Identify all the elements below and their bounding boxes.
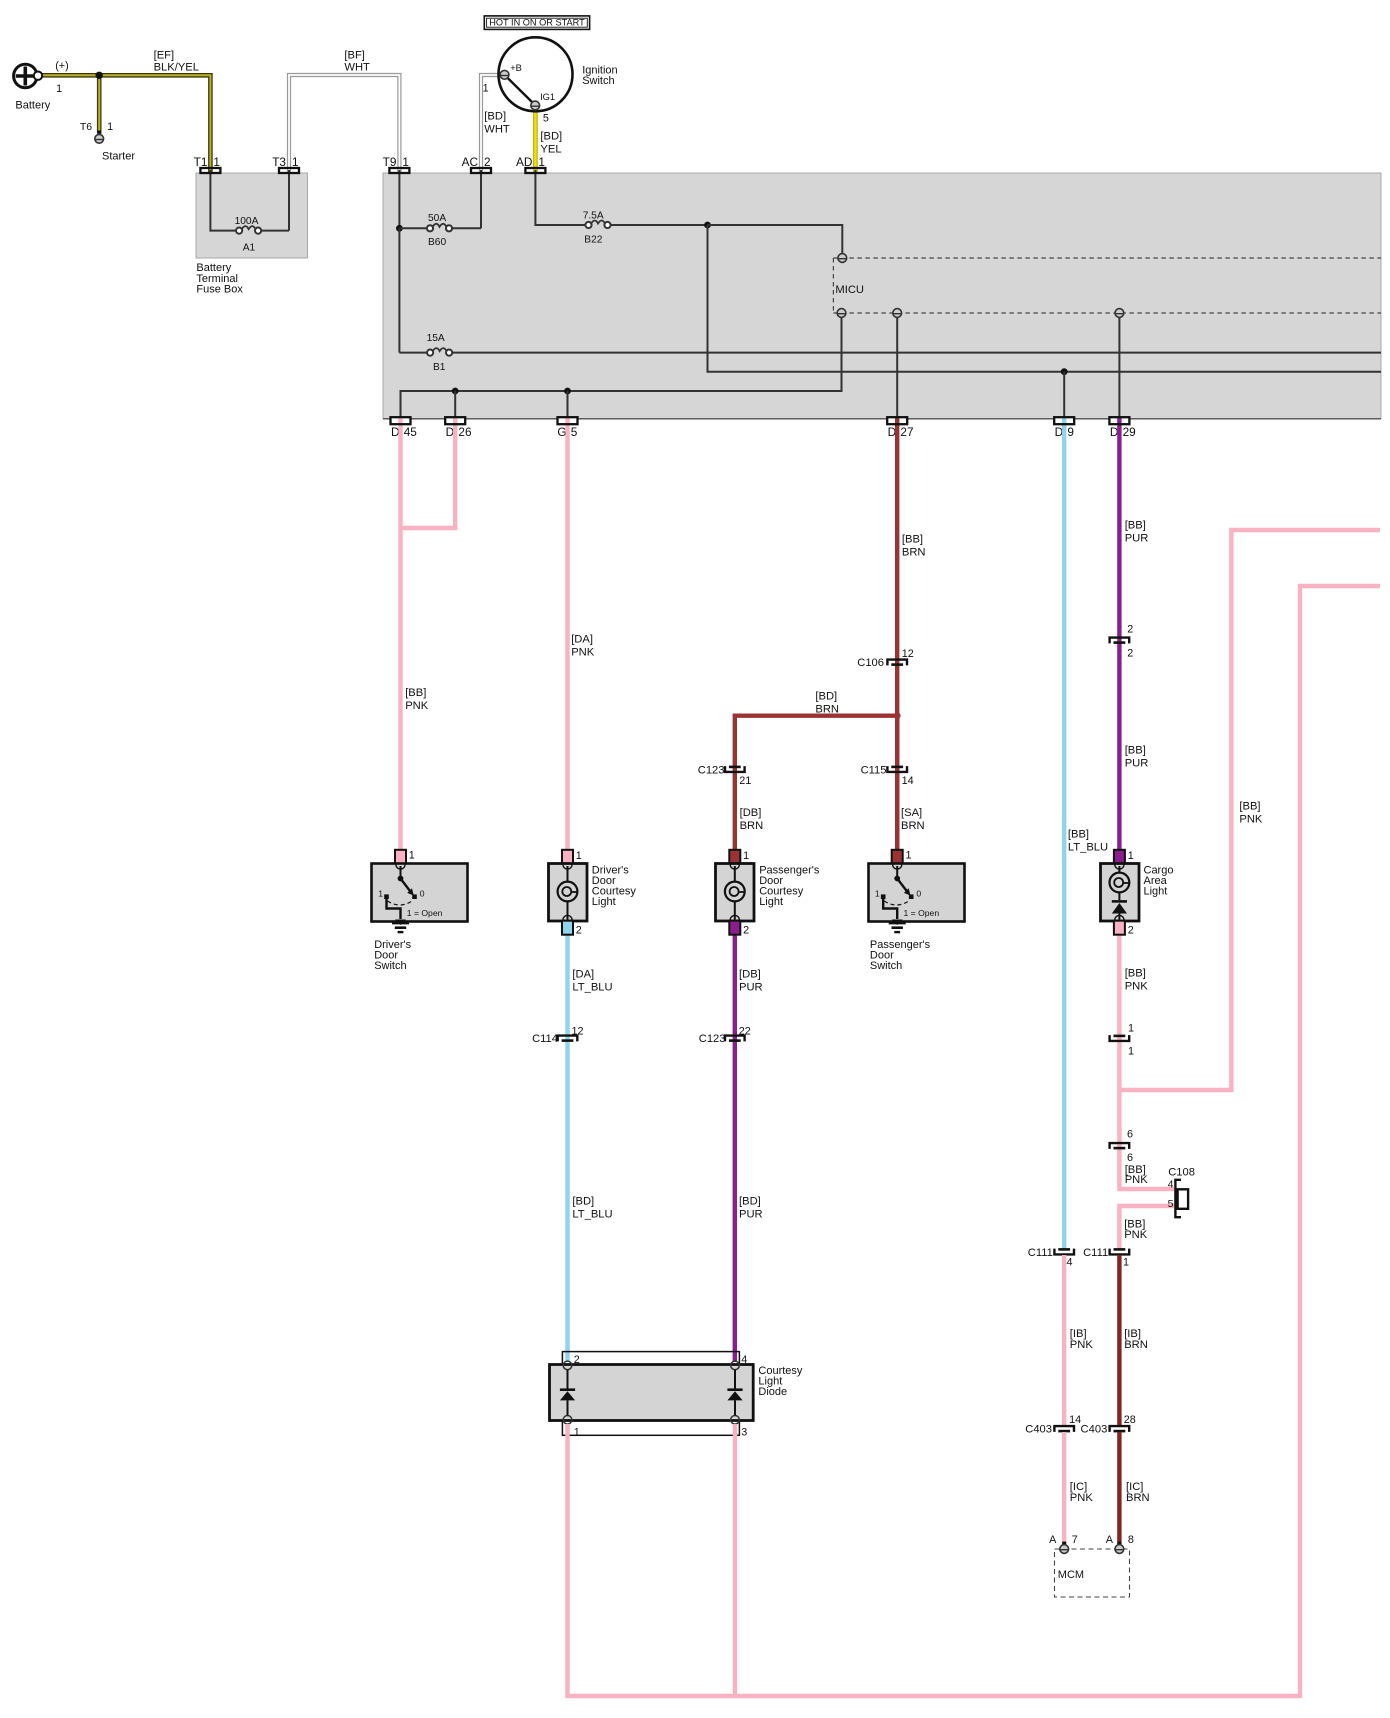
svg-text:BRN: BRN xyxy=(901,820,925,832)
svg-text:Switch: Switch xyxy=(870,960,902,972)
connector C123 pin 22 xyxy=(725,1036,745,1042)
Cargo box xyxy=(1101,864,1140,922)
svg-text:B1: B1 xyxy=(433,362,446,373)
wire [EF] BLK/YEL battery to T1 xyxy=(42,75,211,174)
ground link wire xyxy=(883,899,897,920)
svg-text:A1: A1 xyxy=(243,243,256,254)
svg-text:D: D xyxy=(888,425,897,439)
junction D9 rail xyxy=(1061,368,1068,375)
switch arm xyxy=(897,879,907,892)
switch pivot xyxy=(894,876,900,882)
svg-text:PUR: PUR xyxy=(1125,533,1149,545)
svg-text:BRN: BRN xyxy=(815,704,839,716)
Passenger's box xyxy=(716,864,755,922)
wire D9 to rail xyxy=(1063,372,1065,419)
wire [BB] PNK to C108 pin 4 xyxy=(1117,1187,1174,1191)
courtesy light diode connector housing xyxy=(562,1352,739,1436)
wire [BB] PUR D29 to cargo area light xyxy=(1117,418,1121,851)
svg-text:4: 4 xyxy=(741,1354,747,1366)
svg-text:PUR: PUR xyxy=(739,1209,763,1221)
connector 2/2 inline xyxy=(1110,638,1130,644)
contact 0 xyxy=(412,894,417,899)
svg-text:3: 3 xyxy=(741,1427,747,1439)
wire [BB] LT_BLU D9 to C111 xyxy=(1062,418,1066,1250)
Driver's box xyxy=(549,864,588,922)
ground link wire xyxy=(387,899,401,920)
svg-text:PNK: PNK xyxy=(1125,981,1149,993)
svg-text:T9: T9 xyxy=(383,155,397,169)
MCM terminal A7 xyxy=(1062,1542,1066,1545)
wire [BB] PNK cargo light to 1/1 connector xyxy=(1117,935,1121,1090)
lamp xyxy=(558,882,578,902)
svg-text:BLK/YEL: BLK/YEL xyxy=(154,62,199,74)
travel arc xyxy=(884,900,910,905)
connector C403 pin 28 xyxy=(1110,1426,1130,1432)
svg-text:[DA]: [DA] xyxy=(572,969,594,981)
junction BD BRN xyxy=(894,712,901,719)
pin sockets xyxy=(1115,865,1124,870)
lamp xyxy=(725,882,745,902)
svg-text:T6: T6 xyxy=(80,121,92,133)
svg-text:26: 26 xyxy=(458,425,472,439)
contact 0 xyxy=(909,894,914,899)
svg-text:2: 2 xyxy=(576,925,582,937)
svg-text:Light: Light xyxy=(1144,886,1168,898)
MCM dashed box xyxy=(1055,1549,1130,1597)
diode pin circles xyxy=(563,1361,572,1370)
svg-text:A: A xyxy=(1049,1534,1057,1546)
wire [BF] WHT T3 to T9 xyxy=(289,75,399,174)
svg-text:45: 45 xyxy=(404,425,418,439)
svg-text:1: 1 xyxy=(743,850,749,862)
svg-text:Starter: Starter xyxy=(102,151,135,163)
wire [BB] PNK diode pin 1 to ground rail xyxy=(565,1424,569,1696)
svg-text:C108: C108 xyxy=(1168,1167,1195,1179)
wire D26 stub xyxy=(454,391,456,419)
svg-text:MCM: MCM xyxy=(1058,1569,1084,1581)
MICU terminal E (7.5A feed) xyxy=(838,254,847,263)
svg-text:4: 4 xyxy=(1168,1179,1174,1191)
svg-text:7.5A: 7.5A xyxy=(583,211,604,222)
svg-text:D: D xyxy=(391,425,400,439)
MICU internal dashed boundary xyxy=(832,258,834,313)
svg-text:28: 28 xyxy=(1124,1414,1136,1426)
wire AD to 7.5A fuse xyxy=(535,170,585,225)
svg-text:+B: +B xyxy=(510,63,522,73)
lamp xyxy=(1110,873,1130,893)
svg-text:[EF]: [EF] xyxy=(154,50,175,62)
fuse 50A B60 circuit xyxy=(399,227,427,229)
svg-text:AC: AC xyxy=(462,155,479,169)
svg-text:21: 21 xyxy=(739,775,751,787)
svg-text:PNK: PNK xyxy=(1070,1339,1094,1351)
svg-text:[BB]: [BB] xyxy=(405,687,426,699)
svg-text:[BD]: [BD] xyxy=(739,1196,761,1208)
connector C403 pin 14 xyxy=(1054,1426,1074,1432)
lamp wires xyxy=(734,866,736,882)
ignition switch body xyxy=(499,37,573,111)
svg-text:C111: C111 xyxy=(1028,1247,1053,1259)
svg-text:LT_BLU: LT_BLU xyxy=(1068,842,1108,854)
connector C111 pin 1 xyxy=(1110,1249,1130,1255)
svg-text:1: 1 xyxy=(107,121,113,133)
wire D27 stub xyxy=(896,318,898,419)
svg-text:1: 1 xyxy=(576,850,582,862)
svg-text:0: 0 xyxy=(420,888,425,898)
svg-text:4: 4 xyxy=(1067,1257,1073,1269)
svg-text:2: 2 xyxy=(574,1354,580,1366)
svg-text:2: 2 xyxy=(1127,624,1133,636)
junction battery/starter xyxy=(96,72,103,79)
svg-text:C403: C403 xyxy=(1081,1424,1108,1436)
wire 15A B1 rail xyxy=(398,228,400,352)
svg-text:6: 6 xyxy=(1127,1152,1133,1164)
svg-text:[BD]: [BD] xyxy=(540,131,562,143)
svg-text:0: 0 xyxy=(916,888,921,898)
wire [DA] PNK G5 to driver's courtesy light xyxy=(565,418,569,851)
svg-text:[BB]: [BB] xyxy=(1125,745,1146,757)
diode 2 (right) xyxy=(734,1370,736,1389)
connector C111 pin 4 xyxy=(1054,1249,1074,1255)
svg-text:[BB]: [BB] xyxy=(902,534,923,546)
wire [BB] PNK D45 to driver's door switch xyxy=(398,418,402,851)
svg-text:PUR: PUR xyxy=(1125,758,1149,770)
pin 2 connector xyxy=(562,921,573,935)
svg-text:D: D xyxy=(1110,425,1119,439)
wire [IB] PNK C111 to C403 xyxy=(1062,1255,1066,1425)
svg-text:[BD]: [BD] xyxy=(484,111,506,123)
svg-text:50A: 50A xyxy=(428,213,446,224)
svg-text:1: 1 xyxy=(574,1427,580,1439)
wire [BD] BRN branch to passenger's courtesy light xyxy=(735,716,897,850)
terminal +B xyxy=(500,70,509,79)
wire T9 to 50A fuse xyxy=(398,170,400,228)
svg-text:C123: C123 xyxy=(698,765,725,777)
Driver's Door Switch box xyxy=(372,864,468,922)
svg-text:1: 1 xyxy=(1128,1022,1134,1034)
svg-text:G: G xyxy=(557,425,566,439)
svg-text:T3: T3 xyxy=(272,155,286,169)
ignition switch arm xyxy=(507,77,534,104)
wire [IC] PNK C403 to MCM A7 xyxy=(1062,1432,1066,1544)
svg-text:Light: Light xyxy=(759,896,783,908)
MICU terminal D27 xyxy=(893,309,902,318)
contact 1 xyxy=(881,894,886,899)
svg-text:2: 2 xyxy=(1128,925,1134,937)
svg-text:22: 22 xyxy=(739,1025,751,1037)
svg-text:C114: C114 xyxy=(532,1033,558,1045)
fuse 50A B60 xyxy=(427,225,433,231)
svg-text:1: 1 xyxy=(292,155,299,169)
pin 1 connector passenger's door switch xyxy=(892,850,903,864)
svg-text:PNK: PNK xyxy=(1070,1492,1094,1504)
svg-text:8: 8 xyxy=(1128,1534,1134,1546)
svg-text:2: 2 xyxy=(484,155,491,169)
svg-text:1: 1 xyxy=(402,155,409,169)
svg-text:T1: T1 xyxy=(194,155,208,169)
svg-text:BRN: BRN xyxy=(740,820,764,832)
wire [BB] PNK right loop A xyxy=(1119,530,1380,1090)
MICU terminal ground rail xyxy=(837,309,846,318)
svg-text:5: 5 xyxy=(1168,1198,1174,1210)
svg-text:1 = Open: 1 = Open xyxy=(407,908,443,918)
svg-text:B22: B22 xyxy=(584,235,602,246)
fuse 100A A1 circuit xyxy=(210,170,236,231)
svg-text:AD: AD xyxy=(516,155,532,169)
connector C106 pin 12 xyxy=(887,660,907,666)
travel arc xyxy=(388,900,414,905)
svg-text:Battery: Battery xyxy=(15,100,50,112)
svg-text:14: 14 xyxy=(1069,1414,1081,1426)
wire [BB] PNK right loop B xyxy=(1300,586,1380,1696)
battery symbol xyxy=(14,64,43,87)
connector 6/6 inline xyxy=(1110,1143,1130,1149)
switch contact wire xyxy=(400,866,402,878)
fuse 7.5A B22 xyxy=(585,222,591,228)
svg-text:[BF]: [BF] xyxy=(344,50,365,62)
svg-text:[BD]: [BD] xyxy=(572,1196,594,1208)
svg-text:[SA]: [SA] xyxy=(901,807,922,819)
junction B22 node xyxy=(704,222,711,229)
connector C108 xyxy=(1175,1180,1181,1217)
connector C114 pin 12 xyxy=(558,1036,578,1042)
MICU fuse box body xyxy=(383,173,1381,419)
diode 1 (left) xyxy=(567,1370,569,1389)
svg-text:Light: Light xyxy=(592,896,616,908)
svg-text:PNK: PNK xyxy=(1124,1229,1148,1241)
svg-text:C123: C123 xyxy=(699,1033,726,1045)
svg-text:BRN: BRN xyxy=(1126,1492,1150,1504)
wire [DA] LT_BLU driver's light to C114 xyxy=(565,935,569,1038)
pin 1 connector driver's door switch xyxy=(395,850,406,864)
wire [BD] WHT ignition +B to AC xyxy=(481,75,500,174)
svg-text:1: 1 xyxy=(1123,1257,1129,1269)
pin 2 connector xyxy=(1114,921,1125,935)
svg-text:C403: C403 xyxy=(1025,1424,1052,1436)
ground symbol xyxy=(892,920,903,926)
svg-text:100A: 100A xyxy=(235,216,259,227)
pin 1 connector xyxy=(729,850,740,864)
junction T9/B60/B1 xyxy=(396,225,403,232)
lamp wires xyxy=(1118,866,1120,873)
svg-text:14: 14 xyxy=(902,775,914,787)
svg-text:HOT IN ON OR START: HOT IN ON OR START xyxy=(489,18,585,28)
starter terminal xyxy=(97,131,101,134)
ground symbol xyxy=(395,920,406,926)
svg-text:[DA]: [DA] xyxy=(571,634,593,646)
Passenger's Door Switch box xyxy=(869,864,965,922)
switch pin 1 socket xyxy=(396,865,405,870)
svg-text:5: 5 xyxy=(571,425,578,439)
svg-text:1: 1 xyxy=(409,850,415,862)
wire D29 stub xyxy=(1118,318,1120,419)
MICU box bottom edge xyxy=(383,418,1381,420)
svg-text:Diode: Diode xyxy=(758,1386,787,1398)
connector bar frames xyxy=(200,168,220,173)
connector C123 pin 21 xyxy=(725,766,745,772)
svg-text:5: 5 xyxy=(543,113,549,125)
svg-text:9: 9 xyxy=(1067,425,1074,439)
terminal IG1 xyxy=(531,101,540,110)
svg-text:[DB]: [DB] xyxy=(740,807,762,819)
pin 1 connector xyxy=(562,850,573,864)
lamp wires xyxy=(567,866,569,882)
pin sockets xyxy=(730,865,739,870)
switch pivot xyxy=(398,876,404,882)
MCM terminal A8 xyxy=(1117,1542,1121,1545)
MICU terminal D29 xyxy=(1115,309,1124,318)
svg-text:15A: 15A xyxy=(427,333,445,344)
svg-text:1: 1 xyxy=(875,888,880,898)
svg-text:PNK: PNK xyxy=(571,647,595,659)
pin sockets xyxy=(563,865,572,870)
svg-text:Switch: Switch xyxy=(374,960,406,972)
svg-text:1: 1 xyxy=(1128,850,1134,862)
wire [BB] PNK C108 pin 5 to C111 xyxy=(1119,1206,1174,1249)
Battery Terminal Fuse Box body xyxy=(196,173,308,258)
svg-text:1: 1 xyxy=(378,888,383,898)
svg-text:D: D xyxy=(1055,425,1064,439)
svg-text:D: D xyxy=(446,425,455,439)
wire [BD] LT_BLU C114 to diode pin 2 xyxy=(565,1038,569,1362)
svg-text:PNK: PNK xyxy=(405,700,429,712)
wire [IC] BRN C403 to MCM A8 xyxy=(1117,1432,1121,1544)
svg-text:PUR: PUR xyxy=(739,982,763,994)
svg-text:PNK: PNK xyxy=(1239,814,1263,826)
svg-text:[BD]: [BD] xyxy=(815,691,837,703)
svg-text:WHT: WHT xyxy=(484,124,510,136)
wire [BD] YEL ignition IG1 to AD xyxy=(533,108,538,174)
svg-text:12: 12 xyxy=(572,1025,584,1037)
HOT IN ON OR START tag xyxy=(484,16,589,30)
connector C115 pin 14 xyxy=(887,766,907,772)
wire battery to starter T6 xyxy=(97,75,102,133)
svg-text:1: 1 xyxy=(483,82,489,94)
switch arm xyxy=(401,879,411,892)
wire [SA] BRN C115 to passenger's door switch xyxy=(895,716,899,850)
svg-text:29: 29 xyxy=(1123,425,1136,439)
pin 2 connector xyxy=(729,921,740,935)
svg-text:LT_BLU: LT_BLU xyxy=(572,1209,612,1221)
wire junction down to IGN rail xyxy=(708,225,1382,372)
svg-text:[BB]: [BB] xyxy=(1125,519,1146,531)
svg-text:12: 12 xyxy=(902,648,914,660)
svg-text:1: 1 xyxy=(538,155,545,169)
svg-text:C115: C115 xyxy=(861,765,887,777)
svg-text:BRN: BRN xyxy=(1124,1339,1148,1351)
svg-text:[BB]: [BB] xyxy=(1125,968,1146,980)
fuse 15A B1 xyxy=(427,350,433,356)
wire [BB] PNK diode pin 3 to ground rail xyxy=(733,1424,737,1696)
wire [BB] PNK bottom rail xyxy=(565,1694,1302,1698)
svg-text:1: 1 xyxy=(906,850,912,862)
courtesy light diode body xyxy=(550,1365,754,1421)
svg-text:Fuse Box: Fuse Box xyxy=(196,284,243,296)
svg-text:C111: C111 xyxy=(1083,1247,1108,1259)
svg-text:[DB]: [DB] xyxy=(739,969,761,981)
contact 1 xyxy=(384,894,389,899)
svg-text:MICU: MICU xyxy=(835,284,864,296)
wire junction to MICU terminal E xyxy=(708,225,843,254)
svg-text:2: 2 xyxy=(1127,648,1133,660)
svg-text:6: 6 xyxy=(1127,1129,1133,1141)
svg-text:PNK: PNK xyxy=(1125,1174,1149,1186)
svg-text:C106: C106 xyxy=(857,657,884,669)
svg-text:7: 7 xyxy=(1072,1534,1078,1546)
svg-text:27: 27 xyxy=(900,425,913,439)
svg-text:B60: B60 xyxy=(428,237,446,248)
junction D26 rail xyxy=(452,388,459,395)
svg-text:LT_BLU: LT_BLU xyxy=(572,982,612,994)
svg-text:1: 1 xyxy=(213,155,220,169)
svg-text:(+): (+) xyxy=(55,60,68,72)
svg-text:BRN: BRN xyxy=(902,547,926,559)
connector 1/1 inline xyxy=(1110,1035,1130,1041)
svg-text:1 = Open: 1 = Open xyxy=(904,908,940,918)
wire [BB] BRN D27 to C106 xyxy=(895,418,899,851)
svg-text:[BB]: [BB] xyxy=(1239,801,1260,813)
switch contact wire xyxy=(896,866,898,878)
pin 1 connector xyxy=(1114,850,1125,864)
svg-text:Switch: Switch xyxy=(582,75,614,87)
wire [DB] PUR passenger's light to C123 xyxy=(733,935,737,1038)
switch pin 1 socket xyxy=(893,865,902,870)
wire [BD] PUR C123 to diode pin 4 xyxy=(733,1038,737,1362)
ground rail D45 D26 G5 xyxy=(401,318,842,419)
svg-text:2: 2 xyxy=(743,925,749,937)
wire [IB] BRN C111 to C403 xyxy=(1117,1255,1121,1425)
diode xyxy=(1112,900,1127,903)
svg-text:WHT: WHT xyxy=(344,62,370,74)
wire [BB] PNK D26 jog xyxy=(401,418,456,529)
wire G5 stub xyxy=(567,391,569,419)
svg-text:1: 1 xyxy=(1128,1046,1134,1058)
junction G5 rail xyxy=(564,388,571,395)
wire [BB] PNK 1090 to 6/6 xyxy=(1117,1090,1121,1187)
svg-text:A: A xyxy=(1106,1534,1114,1546)
svg-text:[BB]: [BB] xyxy=(1068,829,1089,841)
fuse 100A A1 xyxy=(236,228,242,234)
svg-text:IG1: IG1 xyxy=(540,92,555,102)
svg-text:1: 1 xyxy=(56,83,62,95)
